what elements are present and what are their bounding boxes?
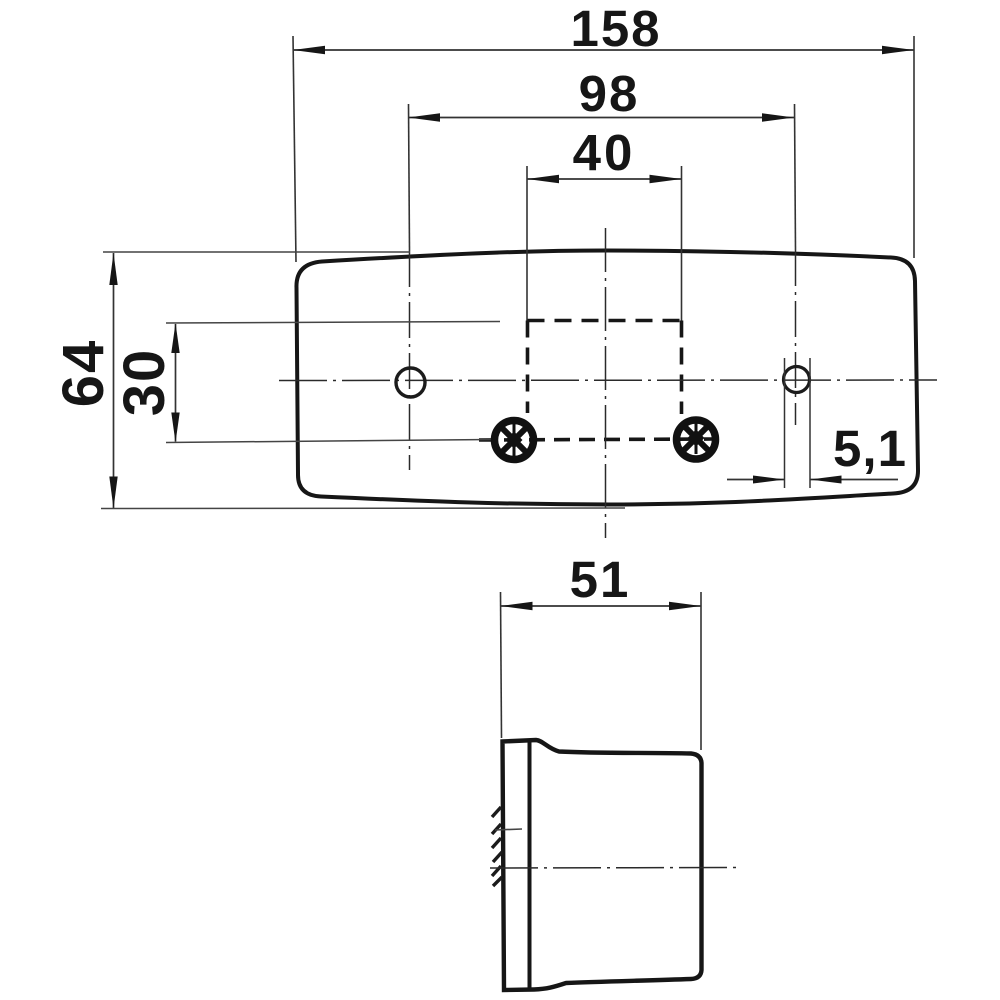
extension line 51 right [700,592,702,750]
lamp body outline (front view) [296,251,918,505]
side view body outline [503,740,702,990]
extension line 51 left [501,592,502,738]
dimension 5,1 left arrow [753,476,785,484]
dimension 98 left arrow [408,113,440,121]
extension line 64 bottom [101,507,625,510]
extension+center line through hole 2 (98 right) [795,104,796,250]
dimension 64 top arrow [109,253,117,285]
dimension 158 right arrow [882,46,914,54]
extension line 30 bottom [166,440,492,443]
extension line 40 left + hidden dashed edge [526,166,528,321]
dimension 5,1 line left part [727,479,785,481]
screw 1 [495,421,534,460]
dimension 5,1 extension lines [784,358,786,488]
extension line 30 top [166,322,500,324]
dimension 51 line [501,605,702,607]
dimension 30 bottom arrow [171,413,179,443]
mounting hole left [396,368,425,397]
svg-text:98: 98 [579,65,640,122]
screw 2 [677,420,716,459]
dimension 158 left arrow [293,46,325,54]
svg-text:5,1: 5,1 [833,420,907,477]
svg-text:158: 158 [570,0,661,57]
mounting hole right [784,367,810,393]
extension line 40 right + hidden dashed edge [681,166,683,321]
extension line 64 top [103,251,410,253]
extension line 158 right [913,36,915,258]
dimension 5,1 line right part [810,479,898,481]
svg-text:30: 30 [112,348,177,417]
side view lens joint line [528,741,532,990]
side view gasket marks [492,807,502,886]
dimension 40 line [527,178,682,180]
svg-text:64: 64 [51,339,116,408]
dimension 64 line [113,253,115,509]
dimension 40 left arrow [527,175,559,183]
dimension 30 top arrow [171,323,179,353]
hidden dashed top edge (connector box) [528,319,682,323]
extension+center line through hole 1 (98 left) [409,104,410,251]
side view small line at gasket [495,829,522,830]
dimension 98 right arrow [762,113,794,121]
dimension 158 line [293,49,914,51]
dimension 64 bottom arrow [109,477,117,509]
dimension 98 line [408,117,794,119]
hidden dashed line through screws [479,439,712,440]
svg-text:40: 40 [573,124,636,181]
svg-text:51: 51 [570,551,631,608]
horizontal centerline (front view) [279,379,937,382]
extension line 158 left [293,36,296,262]
side view centerline [490,867,738,870]
dimension 30 line [175,324,177,442]
dimension 5,1 right arrow [810,476,842,484]
vertical centerline (front view) [605,228,607,538]
dimension 51 right arrow [669,602,701,610]
dimension 40 right arrow [650,175,682,183]
dimension 51 left arrow [501,602,533,610]
